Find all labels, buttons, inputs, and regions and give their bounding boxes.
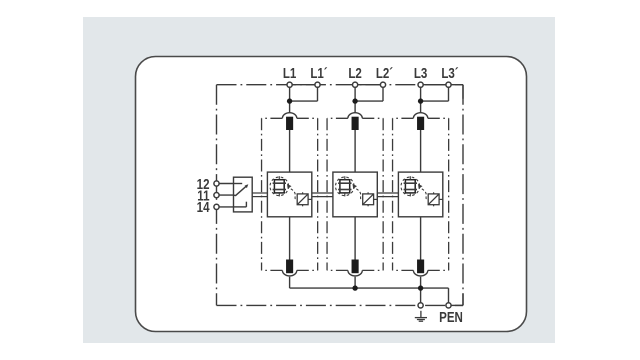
svg-text:L3´: L3´ bbox=[441, 64, 458, 81]
svg-text:L3: L3 bbox=[414, 64, 427, 81]
svg-text:PEN: PEN bbox=[439, 309, 463, 326]
svg-text:L2: L2 bbox=[348, 64, 361, 81]
svg-text:L1: L1 bbox=[283, 64, 297, 81]
svg-text:L1´: L1´ bbox=[310, 64, 327, 81]
svg-text:14: 14 bbox=[197, 199, 210, 216]
svg-text:L2´: L2´ bbox=[376, 64, 393, 81]
